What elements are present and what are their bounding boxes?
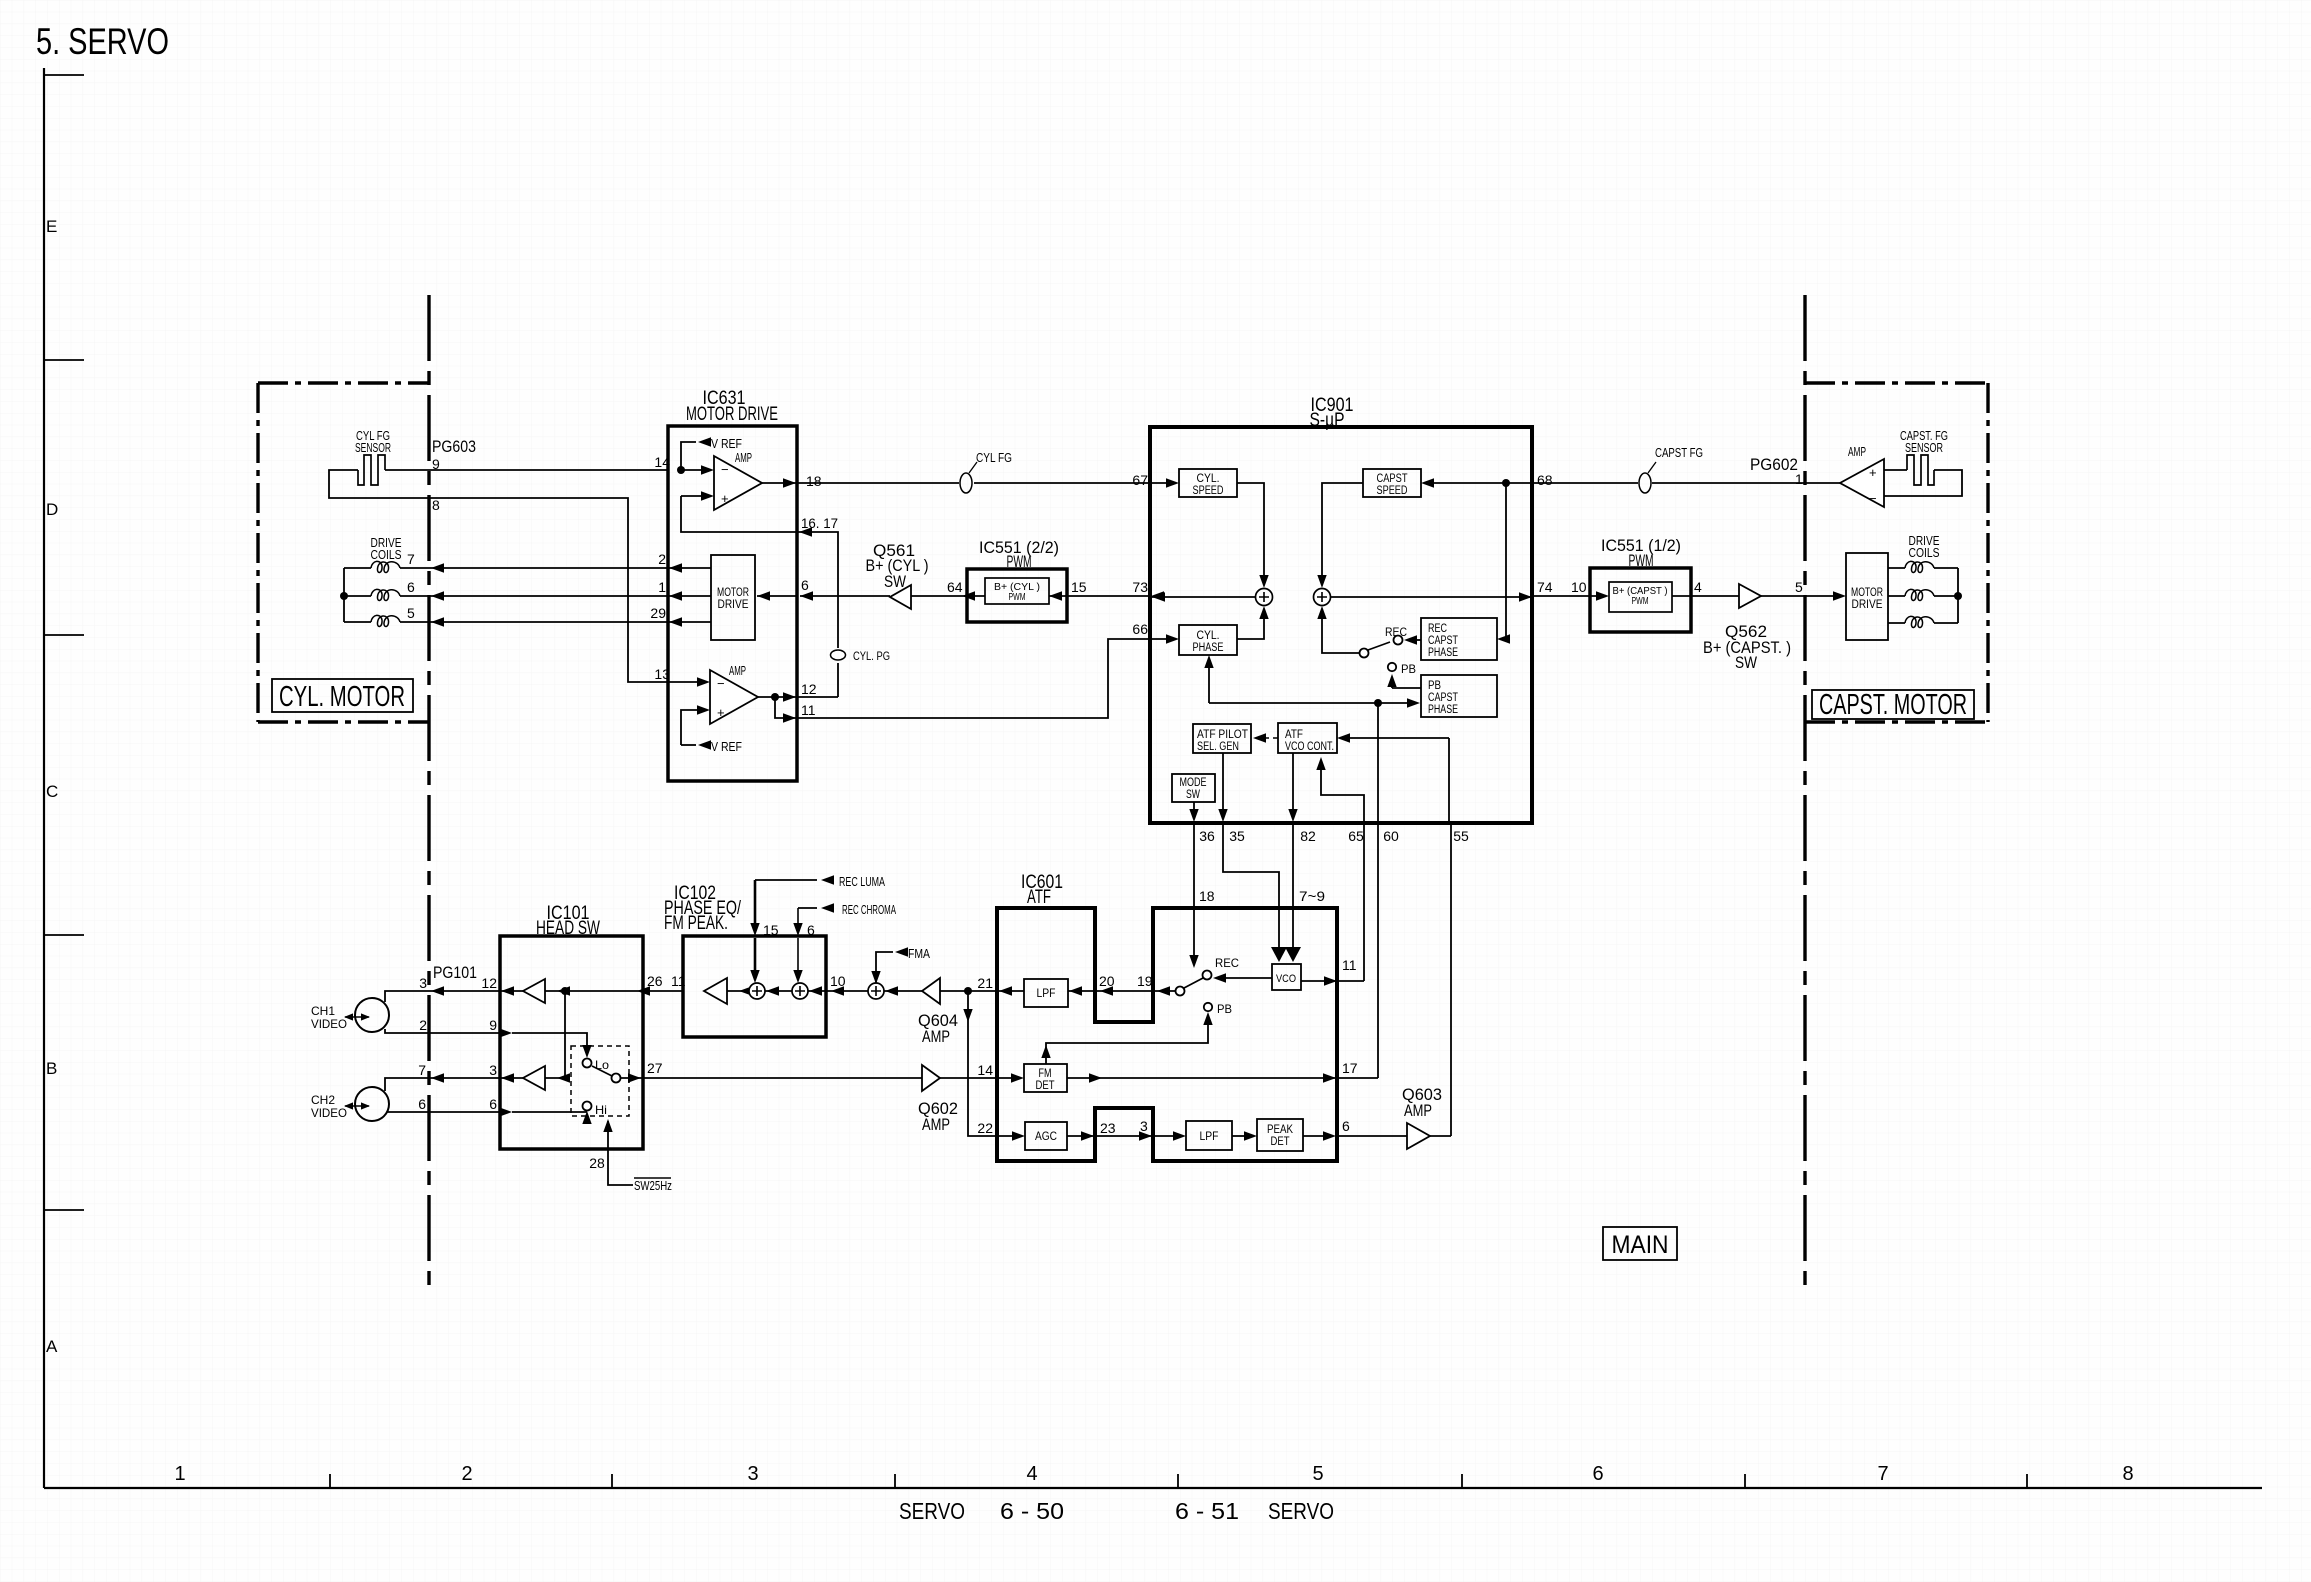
svg-text:VCO: VCO [1276,973,1296,985]
op-amp AMP (cyl PG) [710,670,758,724]
svg-text:SW: SW [1735,653,1757,672]
head amp CH2 triangle [523,1066,545,1090]
wire sensor return to PG603 pin 8 [329,470,668,682]
REC CHROMA flag wire [798,907,817,909]
svg-text:A: A [46,1337,58,1356]
wire IC901 pin 73 to IC551 pin 15 [1049,595,1151,597]
svg-text:B: B [46,1059,57,1078]
svg-text:13: 13 [654,666,670,682]
wire pin20 to LPF [1068,990,1095,992]
svg-text:7: 7 [407,551,415,567]
wire pin19 to switch common [1153,990,1175,992]
svg-text:68: 68 [1537,472,1553,488]
CAPST SPEED block [1363,469,1421,497]
wire ATF PILOT to pin 35 [1222,753,1224,812]
IC101 HEAD SW box [500,936,643,1149]
wire Q603 out to IC901 pin 55 riser [1430,1135,1451,1137]
wire CYL.PHASE to summing node [1237,614,1264,639]
op-amp IC631 MOTOR DRIVE box [668,426,797,781]
IC901 S-uP main box [1150,427,1532,823]
svg-text:SPEED: SPEED [1193,485,1224,497]
CYL. MOTOR label box [272,679,413,712]
cyl drive coil 1 [371,561,400,572]
coil common bus (left) [344,568,371,622]
wire LPF out to pin 21 [997,990,1024,992]
wire pin 28 to switch [608,1121,633,1185]
svg-text:7: 7 [1877,1463,1888,1485]
wires motor drive to coils [1888,568,1905,623]
svg-text:CYL. MOTOR: CYL. MOTOR [279,681,405,713]
wire summing out pin 74 [1331,596,1532,598]
wire Q602 to IC601 pin14 [940,1077,997,1079]
svg-text:12: 12 [801,681,817,697]
svg-text:ATF: ATF [1027,887,1051,908]
svg-text:1: 1 [658,579,666,595]
svg-text:66: 66 [1132,621,1148,637]
wire motor drive out pin 29 [668,621,711,623]
svg-text:REC: REC [1428,623,1447,635]
svg-text:10: 10 [1571,579,1587,595]
net SW25Hz (inverted) [634,1177,671,1179]
cyl drive coil 2 [371,589,400,600]
svg-text:REC LUMA: REC LUMA [839,874,885,889]
svg-text:REC: REC [1215,956,1239,970]
svg-text:AMP: AMP [1404,1101,1432,1120]
wire junction down to pin 22 (AGC) [968,991,997,1136]
wire CH1 amp out to pin 12 [500,990,523,992]
switch lever [1368,642,1390,650]
summing node (capst) [1314,589,1331,606]
svg-text:E: E [46,217,57,236]
sheet bottom border line [44,1487,2262,1489]
wire FM DET to PB contact [1046,1018,1208,1064]
wire IC901 pin82 to VCO (7~9) [1292,822,1294,948]
transistor Q603 AMP [1407,1123,1430,1149]
wire Q562 to capst motor drive (pin 5) [1761,595,1834,597]
junction pin 60 on phase wire [1374,699,1382,707]
svg-text:CAPST: CAPST [1428,692,1458,704]
coil common bus (right) [1934,568,1958,623]
svg-text:74: 74 [1537,579,1553,595]
svg-text:AMP: AMP [922,1027,950,1046]
svg-text:DRIVE: DRIVE [718,599,749,611]
CYL. PHASE block [1179,625,1237,655]
coil bus junction [340,592,348,600]
svg-text:S-µP: S-µP [1310,410,1345,431]
svg-text:27: 27 [647,1060,663,1076]
svg-text:COILS: COILS [371,547,402,562]
svg-text:2: 2 [461,1463,472,1485]
svg-text:8: 8 [432,497,440,513]
svg-text:11: 11 [1342,957,1357,973]
wire CH1 to IC101 pin 9 (PG101 pin 2) [385,1029,500,1033]
svg-text:73: 73 [1132,579,1148,595]
ATF REC contact [1203,971,1212,980]
svg-text:LPF: LPF [1037,988,1056,1000]
REC CAPST PHASE block [1421,618,1497,660]
svg-text:PWM: PWM [1007,552,1032,571]
svg-text:PB: PB [1401,662,1416,676]
svg-text:−: − [1869,491,1877,506]
svg-text:PHASE: PHASE [1428,704,1458,716]
svg-text:VIDEO: VIDEO [311,1017,347,1031]
wire IC901 pin74 to IC551(1/2) [1532,595,1597,597]
svg-text:MOTOR: MOTOR [1851,587,1883,599]
junction IC631 pin14 input [677,466,685,474]
svg-text:CH1: CH1 [311,1004,335,1018]
wire PB contact from PB CAPST PHASE [1392,678,1421,688]
coil bus junction [1954,592,1962,600]
svg-text:6 - 50: 6 - 50 [1000,1498,1064,1524]
svg-text:SENSOR: SENSOR [355,440,391,455]
svg-text:18: 18 [1199,888,1215,904]
svg-text:CAPST. MOTOR: CAPST. MOTOR [1819,689,1967,721]
svg-text:1: 1 [174,1463,185,1485]
sheet left border line [43,68,45,1488]
svg-text:MAIN: MAIN [1612,1231,1669,1259]
capst MOTOR DRIVE box [1846,553,1888,640]
svg-text:VCO CONT.: VCO CONT. [1285,741,1334,753]
svg-text:PB: PB [1428,680,1441,692]
cyl FG sensor element [358,455,385,485]
svg-text:5: 5 [1795,579,1803,595]
svg-text:3: 3 [419,975,427,991]
svg-text:35: 35 [1229,828,1245,844]
wire IC631 pin11 to IC901 pin66 [797,639,1151,718]
wire pin 55 internal [1448,738,1450,822]
wire Q561 to IC551 pin 64 [911,595,985,597]
svg-text:6 - 51: 6 - 51 [1175,1498,1239,1524]
IC102 PHASE EQ/FM PEAK box [683,936,826,1037]
wire IC631 pin6 to Q561 [800,595,890,597]
svg-text:36: 36 [1199,828,1215,844]
wire CH2 amp out to pin 3 [500,1077,523,1079]
svg-text:28: 28 [589,1155,605,1171]
capst drive coil 2 [1905,589,1934,600]
IC601 ATF outline [997,908,1337,1161]
LPF block [1024,979,1068,1007]
wire IC901 pin65 to VCO output [1363,822,1365,981]
wire IC901 pin60 to IC601 pin17 [1377,822,1379,1078]
transistor Q602 AMP [922,1065,940,1091]
CYL. MOTOR block outline (dash-dot) [258,383,429,722]
common contact [612,1074,621,1083]
svg-text:6: 6 [407,579,415,595]
svg-text:PEAK: PEAK [1267,1124,1293,1136]
svg-text:C: C [46,782,58,801]
svg-text:SEL. GEN: SEL. GEN [1197,741,1239,753]
svg-text:11: 11 [801,702,816,718]
svg-text:−: − [717,676,725,691]
svg-text:82: 82 [1300,828,1316,844]
wire pin 65 into ATF VCO CONT bottom [1321,765,1364,822]
ATF PILOT SEL.GEN block [1193,724,1251,753]
wire into - input [681,469,702,471]
svg-text:9: 9 [432,456,440,472]
svg-text:PG101: PG101 [433,963,477,982]
IC551 (2/2) PWM outer box [967,569,1067,622]
feedback wire pins 16,17 to + input [681,496,797,532]
svg-text:18: 18 [806,473,822,489]
svg-text:−: − [721,462,729,477]
wire motor drive out pin 1 [668,595,711,597]
REC switch common contact [1360,649,1369,658]
wire pin 17 to IC901 pin 60 riser [1337,1077,1378,1079]
capst drive coil 1 [1905,561,1934,572]
svg-text:19: 19 [1137,973,1153,989]
CYL.PG loop symbol [831,650,846,660]
CAPST FG loop symbol [1639,473,1651,493]
V REF flag (bottom) [681,744,696,746]
wire CH2 to IC101 pin 6 (PG101 pin 6) [387,1111,500,1113]
wire REC CHROMA to s2 (pin 6) [797,908,799,973]
svg-text:67: 67 [1132,472,1148,488]
transistor Q604 AMP [922,978,940,1004]
wire pin 60 internal [1377,703,1379,822]
wire junction to CH2 amp [545,991,565,1078]
svg-text:3: 3 [489,1062,497,1078]
wire IC101 pin12 to CH1 (PG101 pin 3) [385,991,500,1002]
svg-text:7~9: 7~9 [1299,888,1325,904]
wire pin 9 to Lo contact [512,1033,587,1052]
wire pin23 to pin3 (bridge) [1095,1135,1153,1137]
wire MODE SW to pin 36 [1193,802,1195,812]
transistor Q561 B+ (CYL) SW [890,585,911,609]
IC551 (1/2) PWM outer box [1590,568,1691,632]
svg-text:55: 55 [1453,828,1469,844]
svg-text:6: 6 [1342,1118,1350,1134]
wire summing out pin 73 [1151,596,1255,598]
svg-text:Lo: Lo [595,1058,609,1072]
svg-text:REC: REC [1385,625,1407,639]
op-amp AMP (capst FG) [1840,459,1884,507]
border tick marks [44,75,84,1210]
wire to pin 11 [775,697,797,718]
svg-text:+: + [1869,465,1877,480]
amp output wire to pin 12 [758,696,797,698]
wire pin3 to LPF2 [1153,1135,1175,1137]
wire motor drive out pin 2 [668,567,711,569]
wire LPF2 to PEAK DET [1232,1135,1246,1137]
wire IC102 pin10 to FMA sum [826,990,868,992]
wire Q604 to FMA sum [884,990,922,992]
cyl drive coil 3 [371,615,400,626]
wire sensor return to amp - input [1884,470,1962,496]
wire ATF VCO CONT to pin 82 [1292,753,1294,812]
wire PEAK DET out to pin 6 [1303,1135,1329,1137]
MODE SW block [1172,774,1215,802]
svg-text:11: 11 [671,973,686,989]
MAIN board label box [1603,1227,1677,1260]
wire into + input [681,495,702,497]
switch lever [592,1066,612,1076]
svg-text:COILS: COILS [1909,545,1940,560]
wire IC551 pin4 to Q562 [1672,595,1739,597]
svg-text:SERVO: SERVO [1268,1498,1334,1524]
svg-text:CYL.: CYL. [1197,630,1220,642]
bottom ruler ticks [330,1474,2027,1488]
wire amp + input to sensor [1884,469,1907,471]
REC switch contact [1413,639,1421,641]
svg-text:D: D [46,500,58,519]
wire CYL.SPEED to summing node [1237,483,1264,580]
wire FM DET out to pin 17 [1067,1077,1337,1079]
svg-text:FM: FM [1039,1068,1052,1080]
wire VCO to REC contact [1219,977,1272,979]
REC LUMA flag wire [755,879,817,881]
Hi contact [583,1102,592,1111]
junction pin21/pin22 [964,987,972,995]
wire CAPST SPEED to summing node [1322,483,1363,580]
svg-text:FMA: FMA [908,946,930,961]
svg-text:SW: SW [1186,789,1200,801]
svg-text:9: 9 [489,1017,497,1033]
amp output wire to pin 18 [762,482,797,484]
svg-text:15: 15 [1071,579,1087,595]
svg-text:REC CHROMA: REC CHROMA [842,902,896,917]
svg-text:PHASE: PHASE [1428,647,1458,659]
capst FG sensor element [1907,455,1934,485]
wire IC101 pin3 to CH2 (PG101 pin 7) [385,1078,500,1091]
svg-text:6: 6 [807,922,815,938]
svg-text:PWM: PWM [1009,592,1026,603]
head switch dashed box [571,1046,629,1116]
svg-text:PG602: PG602 [1750,455,1798,474]
svg-text:DET: DET [1271,1136,1290,1148]
svg-text:CYL. PG: CYL. PG [853,649,890,663]
svg-text:14: 14 [977,1062,993,1078]
CH2 VIDEO connector [355,1087,389,1121]
wire pin 67 into CYL.SPEED [1151,482,1171,484]
svg-text:2: 2 [658,551,666,567]
V REF flag (top) [681,442,696,470]
svg-text:2: 2 [419,1017,427,1033]
svg-text:CAPST FG: CAPST FG [1655,445,1703,460]
summing node (cyl) [1256,589,1273,606]
svg-text:5: 5 [407,605,415,621]
wire PG603 pin 9 (sensor to IC631 pin 14) [385,469,668,471]
svg-text:7: 7 [418,1062,426,1078]
svg-text:AGC: AGC [1035,1131,1057,1143]
svg-text:DRIVE: DRIVE [1852,599,1883,611]
head amp CH1 triangle [523,979,545,1003]
wire IC631 pin18 to IC901 pin67 (CYL FG) [797,482,1151,484]
svg-text:AMP: AMP [1848,444,1866,459]
svg-text:64: 64 [947,579,963,595]
ATF VCO CONT. block [1278,723,1337,753]
svg-text:CYL FG: CYL FG [976,450,1012,465]
svg-text:ATF: ATF [1285,729,1303,741]
svg-text:65: 65 [1348,828,1364,844]
svg-text:CAPST: CAPST [1428,635,1458,647]
svg-text:SW: SW [884,572,906,591]
svg-text:PHASE: PHASE [1193,642,1224,654]
PB CAPST PHASE block [1421,675,1497,717]
wire pin6 to Q603 [1337,1135,1407,1137]
svg-text:DET: DET [1036,1080,1055,1092]
wire pin22 into AGC [997,1135,1016,1137]
svg-text:16. 17: 16. 17 [801,515,838,531]
wire coil2 to pin 6 / IC631 pin 1 [400,595,668,597]
wire IC101 pin27 to Q602 [643,1077,922,1079]
wire sum1 to amp [727,990,748,992]
wire IC901 pin36 to IC601 pin18 (REC control) [1193,822,1195,956]
wire pin20 to pin19 (through notch) [1095,990,1153,992]
svg-text:29: 29 [650,605,666,621]
board boundary dashed line right (PG602) [1803,295,1806,1290]
FM DET block [1024,1064,1067,1092]
svg-text:CH2: CH2 [311,1093,335,1107]
wire IC901 pin55 to Q603 output [1450,822,1452,1136]
svg-text:5: 5 [1312,1463,1323,1485]
svg-text:60: 60 [1383,828,1399,844]
transistor Q562 B+ (CAPST.) SW [1739,584,1761,608]
junction pin 68 branch [1502,479,1510,487]
svg-text:ATF PILOT: ATF PILOT [1197,729,1248,741]
svg-text:PB: PB [1217,1002,1232,1016]
svg-text:+: + [721,491,729,506]
CAPST. MOTOR label box [1812,690,1974,719]
svg-text:VIDEO: VIDEO [311,1106,347,1120]
svg-text:PWM: PWM [1629,551,1654,570]
dashed wire ATF VCO CONT to ATF PILOT [1262,737,1278,739]
svg-text:12: 12 [481,975,497,991]
B+ (CYL) PWM inner box [985,578,1049,604]
svg-text:3: 3 [747,1463,758,1485]
svg-text:8: 8 [2122,1463,2133,1485]
svg-text:14: 14 [654,454,670,470]
board boundary dashed line left (PG603/PG101) [427,295,430,1291]
FMA flag [876,952,893,983]
svg-text:SERVO: SERVO [899,1498,965,1524]
wire common to capst summing node [1322,614,1359,653]
svg-text:SW25Hz: SW25Hz [634,1178,672,1193]
wire common contact to pin 27 [620,1077,643,1079]
svg-text:AMP: AMP [735,450,752,465]
svg-text:6: 6 [1592,1463,1603,1485]
wire 68-branch down to REC CAPST PHASE [1505,483,1506,639]
CAPST. MOTOR block outline (dash-dot) [1805,383,1988,722]
ATF REC switch common contact [1176,987,1185,996]
svg-text:4: 4 [1026,1463,1037,1485]
summing node s1 (rec luma) [749,983,765,999]
CYL. SPEED block [1179,469,1237,497]
wire pin 66 into CYL.PHASE [1151,638,1171,640]
wire pin 55 into ATF VCO CONT [1349,737,1449,739]
svg-text:17: 17 [1342,1060,1358,1076]
svg-text:1: 1 [1795,471,1803,487]
wire pin10 to s2 [808,990,826,992]
LPF block (atf) [1186,1121,1232,1150]
svg-text:6: 6 [489,1096,497,1112]
svg-text:SENSOR: SENSOR [1905,440,1943,455]
svg-text:AMP: AMP [729,663,746,678]
capst drive coil 3 [1905,616,1934,627]
Lo contact [583,1059,592,1068]
junction head sw [561,987,569,995]
svg-text:26: 26 [647,973,663,989]
svg-text:MODE: MODE [1180,777,1207,789]
switch lever [1184,978,1203,988]
svg-text:15: 15 [763,922,779,938]
wire REC LUMA to s1 (pin 15) [754,880,757,973]
CH1 VIDEO connector [355,998,389,1032]
wire AGC out pin 23 [1067,1135,1095,1137]
wire IC601 pin21 to Q604 [940,990,997,992]
svg-text:V REF: V REF [711,436,742,451]
svg-text:23: 23 [1100,1120,1116,1136]
wire pin14 into FM DET [997,1077,1016,1079]
